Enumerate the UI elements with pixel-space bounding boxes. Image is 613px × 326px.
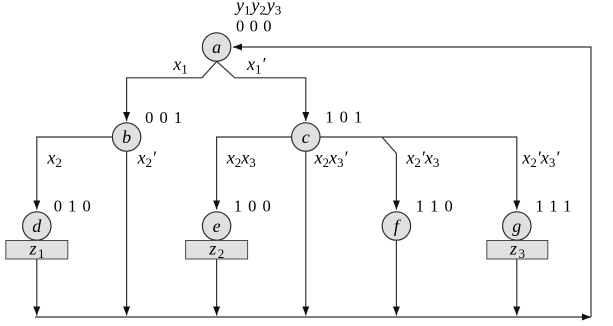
wire branch from c rightward to g	[320, 137, 517, 210]
wire z3 to bottom bus	[516, 259, 518, 316]
node f	[382, 212, 410, 240]
svg-text:1 0 0: 1 0 0	[234, 197, 271, 216]
wire x2'x3 takeoff from horizontal down to f	[382, 137, 397, 210]
svg-text:z: z	[208, 239, 216, 259]
wire x2 branch from b to d	[37, 137, 113, 210]
wire x1' branch from a to c	[217, 61, 306, 121]
svg-text:x2′x3: x2′x3	[405, 148, 439, 171]
svg-text:0 0 1: 0 0 1	[145, 108, 182, 127]
svg-text:x2: x2	[46, 148, 62, 171]
svg-text:1: 1	[38, 246, 45, 261]
svg-text:x1′: x1′	[246, 54, 267, 77]
wire feedback from bottom bus up to node a	[233, 47, 591, 317]
svg-text:x1: x1	[172, 54, 188, 77]
svg-text:0 0 0: 0 0 0	[236, 16, 272, 35]
wire f to bottom bus	[395, 240, 397, 315]
svg-text:x2′x3′: x2′x3′	[521, 148, 560, 171]
node c	[292, 123, 320, 151]
wire z1 to bottom bus	[36, 259, 38, 316]
svg-text:1 1 1: 1 1 1	[535, 197, 571, 216]
output box z2	[186, 239, 248, 262]
svg-text:a: a	[212, 37, 221, 57]
output box z1	[6, 239, 68, 262]
bottom bus wire	[35, 316, 591, 318]
wire x1 branch from a to b	[127, 61, 217, 121]
wire x2' branch from b down to bottom bus	[126, 151, 128, 315]
node b	[112, 123, 140, 151]
svg-text:c: c	[302, 127, 310, 147]
node d	[23, 212, 51, 240]
node a	[202, 33, 230, 61]
svg-text:d: d	[32, 216, 42, 236]
svg-text:b: b	[122, 127, 131, 147]
wire z2 to bottom bus	[216, 259, 218, 316]
wire x2x3 branch from c to e	[217, 137, 292, 210]
svg-text:z: z	[28, 239, 36, 259]
svg-text:1 0 1: 1 0 1	[325, 108, 362, 127]
svg-text:x2x3′: x2x3′	[314, 148, 349, 171]
wire x2x3' branch from c down to bottom bus	[305, 151, 307, 315]
svg-text:2: 2	[218, 246, 225, 261]
svg-text:x2′: x2′	[137, 148, 158, 171]
svg-text:z: z	[509, 239, 517, 259]
output box z3	[487, 239, 548, 262]
svg-text:x2x3: x2x3	[226, 148, 256, 171]
svg-text:y1y2y3: y1y2y3	[234, 0, 281, 17]
node e	[202, 212, 230, 240]
svg-text:1 1 0: 1 1 0	[416, 197, 453, 216]
svg-text:0 1 0: 0 1 0	[54, 197, 91, 216]
svg-text:3: 3	[519, 246, 526, 261]
node g	[503, 212, 531, 240]
svg-text:e: e	[213, 216, 221, 236]
svg-text:g: g	[512, 216, 521, 236]
